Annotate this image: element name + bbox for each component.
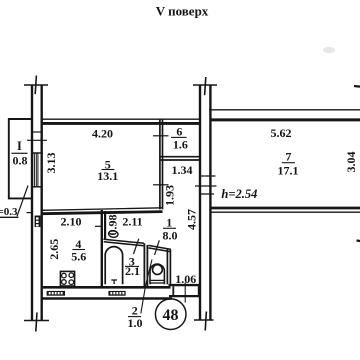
window in left wall: mullions [33, 154, 35, 187]
svg-text:6: 6 [176, 125, 182, 139]
room 7 top wall thin [209, 109, 360, 111]
middle wall bottom slash [205, 312, 206, 331]
entrance threshold [169, 284, 201, 286]
left wall top slash [35, 76, 36, 95]
svg-text:1.0: 1.0 [128, 316, 143, 330]
kitchen door tick [95, 225, 101, 227]
bottom wall inner line [42, 286, 171, 289]
svg-text:7: 7 [285, 150, 291, 164]
svg-text:8.0: 8.0 [163, 228, 178, 242]
toilet cistern circle [153, 265, 163, 275]
toilet right wall [166, 249, 168, 284]
svg-text:1.06: 1.06 [175, 272, 196, 286]
svg-text:0.98: 0.98 [106, 215, 120, 236]
toilet pedestal lines [150, 279, 164, 281]
svg-text:5.62: 5.62 [271, 126, 292, 140]
balcony outline [9, 119, 32, 198]
bathroom top wall (sloped, double) [104, 239, 145, 243]
svg-text:48: 48 [163, 307, 179, 324]
window in left wall: cross lines [31, 152, 43, 154]
toilet door slash [155, 240, 160, 255]
svg-text:5.6: 5.6 [71, 249, 86, 263]
tick right edge bottom [357, 239, 360, 242]
svg-text:2.65: 2.65 [47, 239, 61, 260]
left wall tick y140 [27, 139, 47, 141]
left wall bottom slash [36, 313, 37, 332]
svg-text:1.6: 1.6 [173, 138, 188, 152]
svg-text:3.13: 3.13 [44, 153, 58, 174]
svg-text:17.1: 17.1 [278, 163, 299, 177]
svg-text:1: 1 [166, 215, 172, 229]
middle wall door cross lines [199, 175, 216, 177]
middle wall bottom break tick [194, 319, 214, 321]
vent box in left wall [35, 216, 41, 228]
radiator left [47, 291, 65, 296]
underline of =0.3 [0, 216, 19, 218]
top wall left unit: thick face [42, 122, 200, 125]
bathtub tap [111, 279, 117, 281]
toilet bowl arch [150, 264, 164, 284]
svg-text:I: I [17, 139, 22, 153]
left wall joint line [31, 131, 43, 133]
bathroom door slash [134, 239, 139, 254]
room 7 bottom wall thin [211, 211, 360, 213]
svg-text:0.8: 0.8 [13, 154, 28, 168]
left wall top break tick [24, 84, 48, 86]
toilet top wall (sloped, double) [148, 245, 171, 249]
leader for 1.06 [184, 283, 186, 303]
door tick room6 [153, 135, 169, 137]
entrance step bottom [169, 295, 200, 297]
svg-text:=0.3: =0.3 [0, 206, 18, 218]
top wall left unit: thin face [42, 118, 200, 120]
svg-text:h=2.54: h=2.54 [221, 187, 257, 201]
kitchen stove [60, 271, 74, 286]
apartment number circle 48 [155, 299, 186, 330]
room 7 bottom wall thick [211, 207, 360, 210]
balcony leader line [17, 186, 28, 217]
room 6 bottom wall [160, 156, 200, 158]
entrance step sides [172, 286, 174, 295]
svg-text:2.1: 2.1 [125, 264, 140, 278]
leader for room 2 label [141, 260, 152, 314]
wall: middle (stair) vertical lines [199, 85, 201, 320]
svg-text:1.93: 1.93 [163, 185, 177, 206]
radiator right [108, 291, 125, 296]
wall between room5 and room6/corridor [159, 120, 161, 210]
faint scan smudge [323, 47, 335, 53]
svg-text:13.1: 13.1 [97, 169, 118, 183]
wall: left exterior, vertical lines [31, 85, 33, 321]
door tick corridor [153, 184, 169, 186]
middle wall top break tick [193, 84, 217, 86]
svg-text:V поверх: V поверх [156, 3, 209, 18]
tick right edge top [354, 85, 360, 88]
hall/kitchen top wall thick [42, 212, 163, 214]
bottom wall outer line [42, 297, 172, 300]
svg-text:2.10: 2.10 [61, 214, 82, 228]
bath-toilet divider wall [143, 243, 145, 286]
kitchen-bath partition [101, 210, 103, 287]
svg-text:4.20: 4.20 [92, 126, 113, 140]
washbasin [108, 230, 118, 238]
middle wall top slash [205, 77, 206, 95]
svg-text:4.57: 4.57 [184, 209, 198, 230]
bathtub [105, 247, 122, 285]
svg-text:2.11: 2.11 [122, 214, 142, 228]
hall/kitchen top wall thin [42, 208, 163, 211]
tick at kitchen top level on left wall [27, 212, 34, 214]
svg-text:3.04: 3.04 [344, 152, 358, 173]
svg-text:1.34: 1.34 [172, 163, 193, 177]
room 7 top wall thick [211, 118, 360, 121]
left wall bottom break tick [24, 320, 49, 322]
